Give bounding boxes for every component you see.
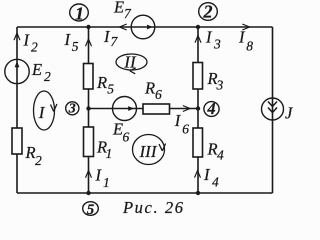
svg-text:3: 3 — [68, 101, 76, 116]
svg-text:3: 3 — [213, 37, 221, 52]
svg-text:R: R — [144, 79, 155, 98]
svg-text:4: 4 — [206, 99, 215, 118]
svg-text:E: E — [113, 0, 124, 16]
svg-text:III: III — [139, 142, 158, 161]
svg-text:R: R — [207, 140, 218, 159]
svg-text:1: 1 — [75, 4, 84, 24]
svg-text:5: 5 — [107, 82, 114, 97]
svg-text:5: 5 — [87, 202, 95, 218]
svg-text:8: 8 — [246, 39, 253, 54]
svg-text:2: 2 — [31, 40, 38, 55]
svg-text:J: J — [285, 104, 293, 123]
svg-text:4: 4 — [217, 148, 224, 163]
svg-text:2: 2 — [35, 153, 42, 168]
svg-text:2: 2 — [203, 2, 213, 22]
svg-text:E: E — [112, 120, 123, 139]
svg-text:6: 6 — [155, 87, 162, 102]
svg-text:6: 6 — [182, 122, 189, 137]
svg-text:II: II — [123, 53, 137, 72]
svg-text:R: R — [96, 73, 107, 92]
svg-text:5: 5 — [72, 39, 79, 54]
svg-text:1: 1 — [106, 146, 113, 161]
svg-text:4: 4 — [212, 175, 219, 190]
svg-text:3: 3 — [216, 78, 224, 93]
svg-text:1: 1 — [103, 175, 110, 190]
svg-text:R: R — [25, 143, 36, 162]
svg-text:2: 2 — [44, 69, 51, 84]
svg-text:E: E — [31, 60, 42, 79]
svg-text:Рис. 26: Рис. 26 — [122, 198, 185, 217]
svg-text:6: 6 — [123, 130, 130, 145]
